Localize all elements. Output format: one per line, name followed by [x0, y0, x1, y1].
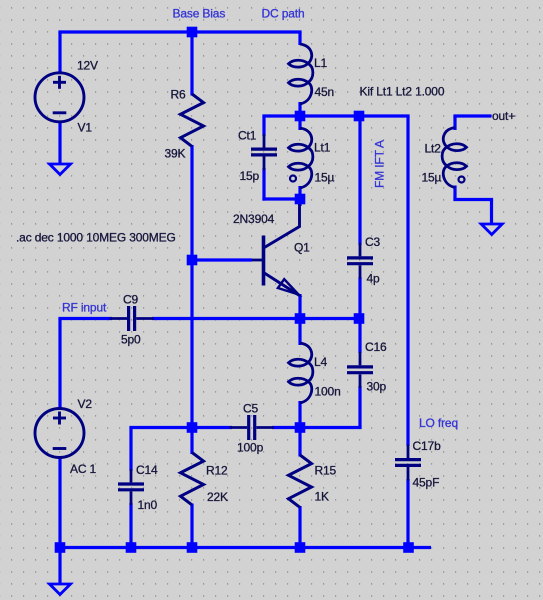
wire Lt1 bottom lead — [298, 186, 301, 199]
inductor L1 — [289, 44, 313, 104]
capacitor C16 — [347, 352, 373, 388]
wire Lt1 top lead — [298, 116, 301, 130]
wire C16 top lead — [358, 319, 361, 354]
capacitor C14 — [118, 469, 144, 505]
wire C5 to L4 node — [272, 426, 300, 429]
transistor Q1 — [252, 204, 300, 296]
wire RF corner down to V2 — [58, 319, 61, 410]
junction Q1 base node — [187, 255, 198, 266]
wire Lt1 node to Q1 collector — [298, 199, 301, 206]
wire L1 bottom lead — [298, 102, 301, 116]
wire R12 node to C5 — [192, 426, 232, 429]
wire C3 top lead from node — [358, 116, 361, 245]
svg-text:LO freq: LO freq — [419, 416, 458, 430]
svg-text:1n0: 1n0 — [138, 498, 158, 512]
svg-text:V1: V1 — [78, 121, 93, 135]
wire top rail — [58, 30, 301, 33]
wire R12 top lead — [190, 428, 193, 455]
svg-text:5p0: 5p0 — [121, 333, 141, 347]
wire V1 top lead — [58, 32, 61, 73]
svg-text:Ct1: Ct1 — [238, 129, 257, 143]
svg-text:4p: 4p — [367, 272, 381, 286]
svg-text:1K: 1K — [315, 490, 330, 504]
capacitor Ct1 — [251, 134, 277, 170]
wire LO column down to C17b — [406, 116, 409, 446]
wire RF input row — [58, 317, 112, 320]
junction L4 bottom node — [295, 422, 306, 433]
capacitor C3 — [347, 243, 373, 279]
svg-text:C9: C9 — [123, 293, 139, 307]
svg-text:Q1: Q1 — [294, 241, 310, 255]
junction rail R15 — [295, 542, 306, 553]
wire node row Ct1-Lt1-C3-LO — [262, 114, 409, 117]
wire C16 bottom link to L4 node — [300, 426, 362, 429]
wire C14 corner row — [129, 426, 192, 429]
svg-text:DC path: DC path — [262, 7, 305, 21]
wire R15 top lead — [298, 428, 301, 457]
wire C14 bottom to rail — [129, 503, 132, 548]
wire L4 bottom lead — [298, 401, 301, 428]
wire Lt2 top lead — [453, 116, 456, 130]
ground Lt2 — [481, 224, 502, 235]
svg-text:C14: C14 — [136, 463, 158, 477]
resistor R12 — [181, 453, 204, 505]
svg-text:30p: 30p — [367, 380, 387, 394]
wire Lt2 bottom lead — [453, 186, 456, 200]
svg-text:Lt1: Lt1 — [314, 141, 331, 155]
wire base node down to R12 node — [190, 260, 193, 428]
wire V2 bottom to rail — [58, 458, 61, 548]
svg-text:.ac dec 1000 10MEG 300MEG: .ac dec 1000 10MEG 300MEG — [16, 231, 176, 245]
capacitor C9 — [110, 306, 154, 331]
wire R12 bottom to rail — [190, 504, 193, 548]
svg-text:R15: R15 — [315, 464, 337, 478]
junction L1/Lt1 node — [295, 111, 306, 122]
svg-text:AC 1: AC 1 — [70, 462, 97, 476]
wire Lt2 ground drop — [490, 200, 493, 225]
ground V1 — [50, 164, 71, 175]
wire R6 top lead — [190, 32, 193, 96]
wire bottom ground stub — [58, 548, 61, 585]
junction R12 top node — [187, 422, 198, 433]
wire C14 top drop — [129, 428, 132, 472]
svg-text:12V: 12V — [77, 59, 98, 73]
wire DC path drop to L1 — [298, 32, 301, 45]
capacitor C17b — [395, 445, 421, 481]
resistor R6 — [181, 94, 204, 146]
wire bottom ground rail — [56, 546, 431, 549]
svg-text:FM IFT A: FM IFT A — [373, 140, 387, 188]
inductor Lt1 phase dot — [290, 176, 296, 182]
junction rail C17b — [403, 542, 414, 553]
junction emitter node — [295, 313, 306, 324]
voltage source V1 — [35, 73, 84, 122]
svg-text:C5: C5 — [243, 402, 259, 416]
svg-text:out+: out+ — [492, 109, 515, 123]
inductor L4 — [289, 343, 313, 403]
junction rail V2 — [55, 542, 66, 553]
svg-text:100p: 100p — [237, 441, 264, 455]
wire Ct1 bottom to Lt1 node — [262, 197, 300, 200]
svg-text:100n: 100n — [315, 385, 341, 399]
svg-text:R12: R12 — [206, 464, 228, 478]
wire Q1 emitter to node — [298, 294, 301, 319]
wire Lt2 bottom row — [453, 198, 493, 201]
wire Ct1 top drop — [262, 116, 265, 136]
wire Ct1 bottom drop — [262, 168, 265, 201]
svg-text:45pF: 45pF — [413, 476, 440, 490]
wire R15 bottom to rail — [298, 506, 301, 548]
svg-text:22K: 22K — [207, 490, 228, 504]
wire V1 bottom to ground — [58, 122, 61, 165]
ground bottom rail — [50, 584, 71, 595]
inductor Lt1 — [289, 128, 313, 188]
svg-text:15µ: 15µ — [422, 171, 442, 185]
wire R6 bottom to base node — [190, 145, 193, 260]
svg-text:C16: C16 — [365, 340, 387, 354]
wire C3 bottom to RF row — [358, 277, 361, 319]
svg-text:2N3904: 2N3904 — [233, 212, 275, 226]
svg-text:15p: 15p — [240, 169, 260, 183]
inductor Lt2 phase dot — [459, 177, 465, 183]
junction Base Bias node — [187, 27, 198, 38]
junction C3 top node — [354, 111, 365, 122]
svg-text:Base Bias: Base Bias — [173, 7, 226, 21]
svg-text:45n: 45n — [315, 85, 335, 99]
svg-text:Lt2: Lt2 — [425, 142, 442, 156]
svg-text:V2: V2 — [78, 397, 93, 411]
svg-text:L1: L1 — [314, 56, 328, 70]
wire C17b bottom to rail — [406, 479, 409, 548]
svg-text:C3: C3 — [365, 235, 381, 249]
junction rail R12 — [187, 542, 198, 553]
inductor Lt2 — [442, 128, 466, 188]
svg-text:R6: R6 — [171, 88, 187, 102]
svg-text:39K: 39K — [165, 147, 186, 161]
junction rail C14 — [126, 542, 137, 553]
svg-text:L4: L4 — [314, 355, 328, 369]
svg-text:C17b: C17b — [413, 439, 442, 453]
wire out+ row — [453, 114, 491, 117]
svg-text:15µ: 15µ — [315, 171, 335, 185]
capacitor C5 — [230, 415, 274, 440]
wire C9 to emitter node row — [152, 317, 359, 320]
svg-text:Kif Lt1 Lt2 1.000: Kif Lt1 Lt2 1.000 — [360, 85, 445, 99]
wire L4 top lead — [298, 319, 301, 346]
junction Lt1 bottom node — [295, 194, 306, 205]
wire C16 bottom drop — [358, 386, 361, 428]
wire base node to Q1 base — [192, 258, 252, 261]
resistor R15 — [289, 455, 312, 507]
voltage source V2 — [35, 409, 84, 458]
junction C3 bottom node — [354, 313, 365, 324]
svg-text:RF input: RF input — [62, 301, 107, 315]
